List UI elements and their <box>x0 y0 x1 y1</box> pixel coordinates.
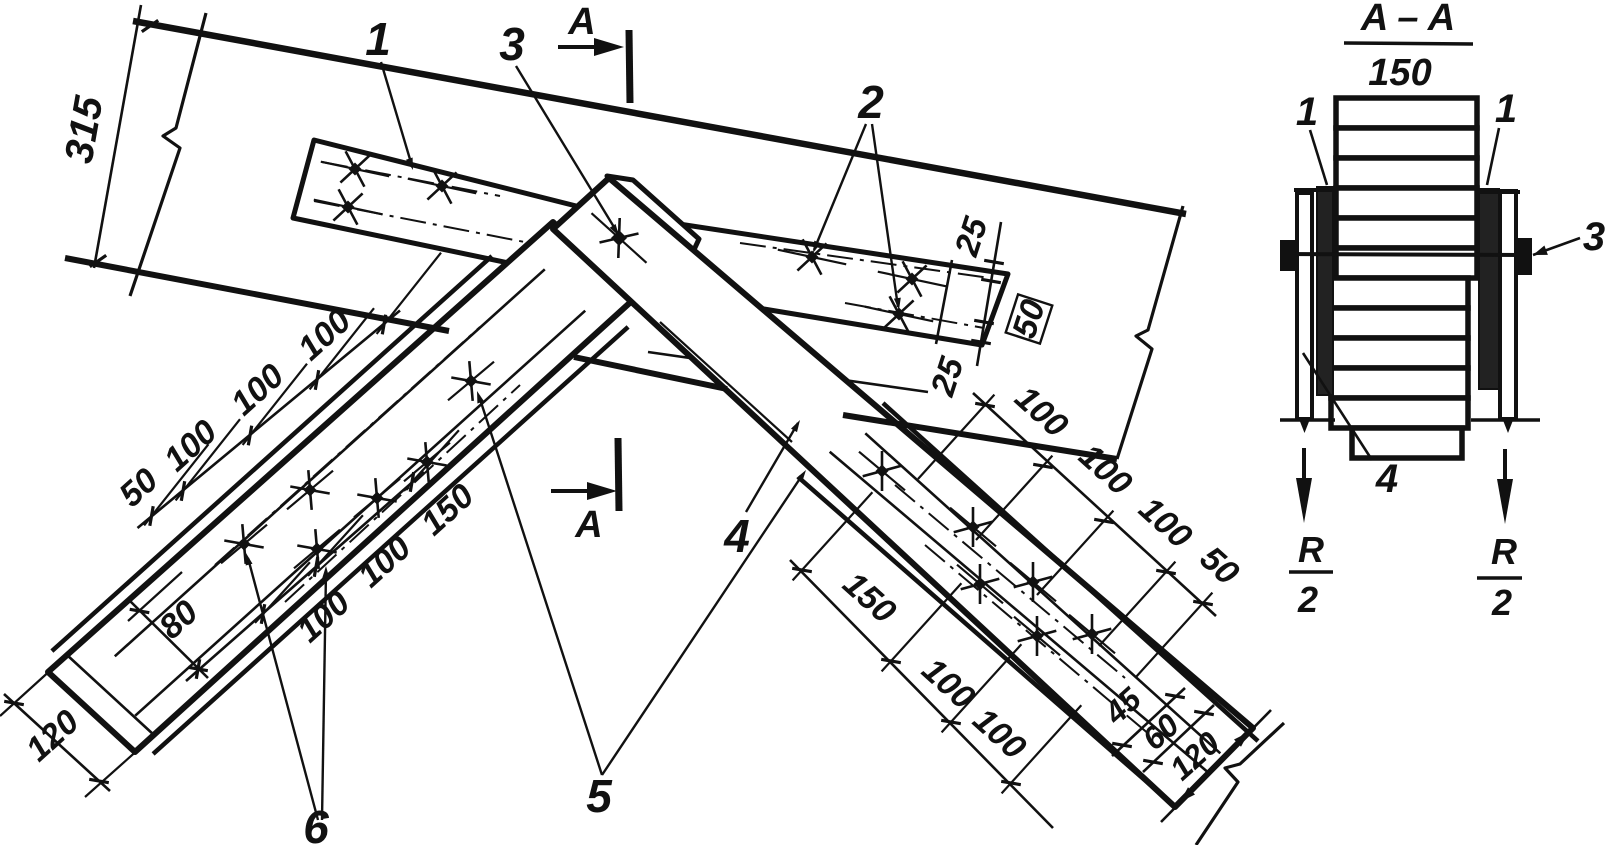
left brace strap inner line (lower side) <box>135 311 585 716</box>
strap end cut inside left brace end <box>67 655 154 735</box>
tick upper chain 3 <box>315 370 318 390</box>
bolt on left brace (244,544) <box>221 525 267 564</box>
svg-text:6: 6 <box>303 801 329 845</box>
bolt on right brace (1037,636) <box>1014 617 1060 656</box>
bolt on right brace (1092,634) <box>1069 615 1115 654</box>
right brace strap inner line (upper side) <box>865 433 1220 753</box>
right vertical rod <box>1500 191 1516 419</box>
extension lines left lower chain <box>255 562 310 623</box>
beam right break line with zigzag <box>1117 206 1183 459</box>
extension lines left upper chain <box>144 444 208 525</box>
tick top of 315 <box>142 20 158 31</box>
left lower chain line <box>186 472 424 681</box>
right diagonal brace member 4 <box>553 178 1253 807</box>
svg-text:R: R <box>1298 529 1324 570</box>
extension lines right lower chain <box>793 492 873 580</box>
right brace bolt axis dash-dot a <box>895 485 1125 678</box>
tick upper chain 4 <box>382 315 385 335</box>
dim line 315 <box>94 5 141 268</box>
svg-text:A – A: A – A <box>1360 0 1455 39</box>
right top cap line <box>1477 190 1520 194</box>
right lower chain line <box>790 560 1053 828</box>
svg-text:A: A <box>574 504 602 546</box>
node bolt on plate 3 <box>592 213 647 263</box>
left side plate 1 (hatched) <box>1317 187 1333 395</box>
left brace bolt axis dash-dot b <box>285 385 520 602</box>
svg-text:150: 150 <box>1368 52 1431 94</box>
left top cap line <box>1294 188 1336 192</box>
svg-text:1: 1 <box>365 13 391 65</box>
svg-text:A: A <box>567 1 595 43</box>
plate 1 bolt row centerline upper-left <box>322 162 500 196</box>
left nut <box>1280 240 1295 271</box>
left brace strap inner line (upper side) <box>115 269 545 656</box>
svg-text:3: 3 <box>499 18 525 70</box>
bolt on left brace (317,549) <box>294 530 340 569</box>
tick upper chain 1 <box>181 481 184 501</box>
end dim line 60 <box>1143 705 1214 772</box>
right upper chain line <box>973 393 1216 616</box>
right brace bolt axis dash-dot b <box>925 545 1150 735</box>
left diagonal brace member <box>48 222 634 752</box>
tick bottom of 315 <box>90 255 106 266</box>
dim chain line left brace upper <box>138 311 401 529</box>
extension from corner to 120 tick a <box>0 668 53 716</box>
bolt 2a on plate right part <box>778 250 846 265</box>
label 5 leaders <box>479 396 602 775</box>
node plate 3 (sliver behind right brace) <box>607 176 699 254</box>
beam left break line with zigzag <box>130 13 206 296</box>
beam bottom edge middle segment <box>574 357 727 389</box>
plate 1 bolt row centerline lower-left <box>314 201 540 245</box>
bolt on plate 1 (442,186) <box>408 179 476 194</box>
bolt line through section <box>1280 254 1532 255</box>
bolt on right brace (973,527) <box>950 508 996 547</box>
section marker A top: arrow <box>558 45 600 49</box>
left force arrow <box>1302 448 1306 495</box>
bolt on right brace (1033,582) <box>1010 563 1056 602</box>
label 1 leader <box>381 62 412 166</box>
label 4 leader <box>746 423 798 512</box>
right ground line <box>1471 418 1540 422</box>
left brace bolt axis dash-dot a <box>215 327 480 565</box>
grain line under plate b <box>600 288 742 312</box>
svg-text:1: 1 <box>1495 87 1517 131</box>
plate 1 bolt row centerline lower-right <box>845 303 984 328</box>
label 3 leader <box>516 66 617 232</box>
break line beyond right brace end <box>1196 723 1284 845</box>
bolt on left brace (310,490) <box>287 471 333 510</box>
svg-text:4: 4 <box>723 510 750 562</box>
svg-text:3: 3 <box>1583 215 1605 259</box>
section marker A bottom: arrow <box>551 489 594 493</box>
left rod bottom arrow tip <box>1299 419 1310 433</box>
label 2 leaders <box>814 124 866 250</box>
svg-text:4: 4 <box>1375 457 1398 501</box>
bolt 2c on plate right part <box>865 307 933 322</box>
end cut extension / 120 dim line right brace <box>1161 710 1271 822</box>
section marker A bottom: bar <box>618 438 619 511</box>
right brace strap inner line (lower side) <box>830 452 1210 774</box>
bolt on left brace (427,462) <box>404 443 450 482</box>
svg-text:5: 5 <box>586 770 613 822</box>
bolt 2b on plate right part <box>878 272 946 287</box>
extension lines right upper chain <box>918 395 994 479</box>
extension from corner to 120 tick b <box>85 748 140 797</box>
svg-text:2: 2 <box>1491 582 1512 623</box>
right rod bottom arrow tip <box>1503 419 1514 433</box>
beam bottom edge left segment <box>65 258 449 331</box>
box around 50 <box>1006 294 1053 343</box>
beam top edge <box>133 21 1186 214</box>
plate 1 (long bolted plate on top chord) <box>293 140 1008 345</box>
left vertical rod 4 <box>1297 193 1312 419</box>
bolt on plate 1 (355,169) <box>321 162 389 177</box>
tick upper chain 2 <box>248 426 251 446</box>
end dim line 45 <box>1112 688 1185 756</box>
bolt on left brace (377,498) <box>354 479 400 518</box>
bolt on right brace (882,471) <box>859 452 905 491</box>
svg-text:1: 1 <box>1296 90 1318 134</box>
extension line E1 at plate right part <box>936 260 952 344</box>
extension at 80 tick <box>128 572 182 621</box>
svg-text:2: 2 <box>857 76 884 128</box>
svg-text:2: 2 <box>1297 579 1318 620</box>
dim 80 perpendicular line <box>130 601 208 678</box>
ticks on E2 <box>984 260 1004 263</box>
right nut <box>1518 238 1532 275</box>
title underline <box>1344 43 1473 44</box>
right side plate 1 (hatched) <box>1479 189 1499 389</box>
bolt on left brace (471,381) <box>448 362 494 401</box>
grain line inside right brace <box>660 322 792 442</box>
section marker A top: bar <box>629 30 630 103</box>
bolt on right brace (980,584) <box>957 565 1003 604</box>
svg-text:R: R <box>1491 531 1517 572</box>
plate 1 bolt row centerline upper-right <box>740 243 990 278</box>
beam bottom edge right segment <box>843 415 1117 459</box>
laminated plank stack <box>1331 98 1477 458</box>
label 6 leaders <box>248 558 318 820</box>
grain line under plate a <box>648 352 928 392</box>
left brace strap outer edge (upper side) <box>52 256 492 651</box>
right force arrow <box>1503 449 1507 496</box>
left ground line <box>1280 418 1335 422</box>
tick upper chain 0 <box>150 506 153 526</box>
right brace strap outer edge (lower side) <box>798 477 1172 804</box>
extension line E2 at plate right end <box>977 222 1001 366</box>
dim 120 line at left brace end <box>4 694 110 791</box>
bolt on plate 1 (348,207) <box>314 200 382 215</box>
right brace strap outer edge (upper side) <box>883 403 1258 741</box>
left brace strap outer edge (lower side) <box>153 327 628 754</box>
